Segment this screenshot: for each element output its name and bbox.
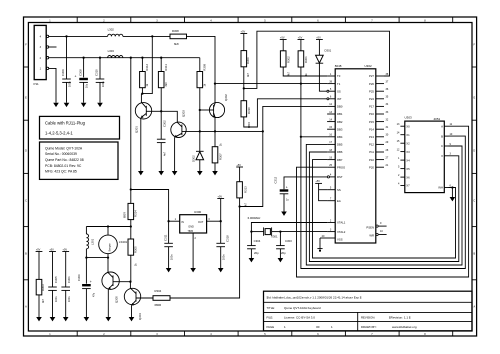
capacitor C302 [157, 111, 166, 171]
capacitor C306 polarized [77, 258, 96, 317]
wire R310 to INT row [244, 99, 327, 127]
ground C312 [281, 212, 287, 216]
wire beeper rail [86, 226, 130, 228]
svg-text:X0: X0 [406, 124, 410, 128]
svg-text:$Id: kbdbabel_doc_qvt102a-sch,: $Id: kbdbabel_doc_qvt102a-sch,v 1.1 2008… [267, 296, 362, 300]
ground C305 [50, 317, 56, 321]
border zone numbers bottom [49, 333, 426, 336]
svg-text:R306: R306 [246, 57, 250, 64]
svg-text:VSS: VSS [337, 237, 343, 241]
resistor R309 [197, 58, 206, 132]
svg-text:INH: INH [438, 186, 443, 190]
svg-text:C306: C306 [77, 274, 81, 281]
svg-text:R313: R313 [244, 186, 248, 193]
border zone numbers top [49, 20, 426, 23]
svg-text:R308: R308 [172, 29, 179, 33]
svg-text:U303: U303 [405, 116, 413, 120]
resistor R314 [124, 203, 138, 226]
wire +5V to output node [220, 199, 222, 244]
note box: cable pinout [40, 116, 120, 139]
svg-text:OUT: OUT [198, 221, 204, 224]
note box: keyboard data [40, 142, 119, 179]
svg-text:C309: C309 [61, 69, 65, 76]
svg-text:WR: WR [369, 234, 374, 238]
U302 right pin names [366, 74, 374, 238]
wire regulator OUT [207, 220, 221, 222]
regulator U300 7805 [175, 210, 211, 240]
node Q302 emitter junction [214, 130, 216, 132]
wire regulator GND pin [192, 233, 194, 268]
sheet inner border frame [28, 23, 472, 332]
svg-text:C301: C301 [67, 276, 71, 283]
wire bundle DB7 to 4051 X [313, 160, 456, 258]
svg-text:MFG: 423 QC: PA 85: MFG: 423 QC: PA 85 [45, 170, 77, 174]
svg-text:4n7: 4n7 [163, 151, 166, 156]
svg-text:+: + [90, 280, 92, 284]
node R301 bundle junction [300, 136, 302, 138]
wire VSS to ground [319, 238, 321, 249]
resistor R302 [280, 40, 290, 77]
svg-text:P13: P13 [369, 135, 374, 139]
svg-text:TITLE:: TITLE: [267, 306, 276, 310]
svg-text:20p: 20p [254, 251, 259, 255]
svg-text:FILE:: FILE: [267, 315, 274, 319]
wire Q301 collector [140, 94, 142, 103]
svg-text:P24: P24 [369, 97, 374, 101]
ground R307 [212, 171, 218, 175]
inductor L301 [86, 227, 94, 258]
wire pin3 stub [49, 46, 57, 48]
wire R304 to R313 node [170, 207, 240, 299]
svg-text:4k7: 4k7 [247, 72, 250, 77]
resistor R311 [158, 58, 167, 112]
title block frame [264, 291, 473, 331]
svg-text:X7: X7 [406, 184, 410, 188]
U303 right pin numbers [450, 123, 453, 187]
svg-text:D302: D302 [192, 155, 196, 162]
node R308 branch junction [151, 35, 153, 37]
wire collector branch Q301 [141, 36, 152, 93]
resistor R306 [241, 34, 250, 78]
capacitor C305 [48, 252, 58, 318]
svg-text:Q305: Q305 [115, 296, 119, 303]
svg-text:6k8: 6k8 [174, 42, 179, 46]
power +5V R301 [298, 36, 305, 39]
title block column divider [357, 312, 359, 330]
svg-text:P11: P11 [369, 150, 374, 154]
wire Q301 base to R311 column [146, 110, 161, 112]
node speaker collector junction [107, 256, 109, 258]
connector P11 [34, 25, 49, 86]
svg-text:R305: R305 [134, 246, 138, 253]
svg-text:Cable with RJ11-Plug: Cable with RJ11-Plug [45, 121, 86, 126]
capacitor C312 polarized [274, 176, 290, 211]
svg-text:R309: R309 [202, 63, 206, 70]
svg-text:Qume Part No.: 84822 08: Qume Part No.: 84822 08 [45, 158, 84, 162]
svg-text:T0: T0 [337, 74, 341, 78]
svg-text:P11: P11 [34, 82, 39, 86]
svg-text:www.kbdbabel.org: www.kbdbabel.org [392, 325, 417, 329]
svg-text:GND: GND [188, 226, 194, 229]
svg-text:DB7: DB7 [337, 158, 343, 162]
svg-text:8048: 8048 [335, 64, 342, 68]
resistor R312 [140, 58, 149, 94]
wire bundle DB5 to 4051 B [306, 144, 462, 265]
svg-text:Q304: Q304 [138, 313, 142, 320]
svg-text:+: + [286, 186, 288, 190]
ground INH [450, 197, 456, 201]
capacitor C309 [61, 36, 71, 102]
svg-text:T1: T1 [337, 82, 341, 86]
svg-text:C: C [441, 144, 443, 148]
svg-text:Q302: Q302 [224, 94, 228, 101]
U302 PSEN pin stub [376, 225, 387, 227]
node supply to regulator junction [130, 188, 132, 190]
transistor Q303 [171, 110, 186, 138]
svg-text:DB3: DB3 [337, 127, 343, 131]
node XTAL2 C303 junction [279, 230, 281, 232]
wire Q304 emitter to ground [131, 305, 133, 317]
svg-text:DRAWN BY:: DRAWN BY: [361, 325, 377, 329]
capacitor C310 [95, 58, 105, 103]
node pin2-R312 junction [141, 57, 143, 59]
svg-text:C304: C304 [254, 239, 261, 243]
svg-text:Beeper: Beeper [109, 243, 112, 251]
svg-text:Serial No.: 00060039: Serial No.: 00060039 [45, 152, 77, 156]
svg-text:U300: U300 [194, 210, 202, 214]
node C311 input junction [167, 220, 169, 222]
svg-text:C311: C311 [163, 234, 167, 241]
ground Q303 [172, 171, 178, 175]
svg-text:DB6: DB6 [337, 150, 343, 154]
node INH junction [451, 186, 453, 188]
capacitor C304 [247, 239, 261, 258]
svg-text:LS301: LS301 [119, 240, 128, 244]
U302 right pin numbers [380, 73, 389, 233]
svg-text:Qume Model: QVT-102A: Qume Model: QVT-102A [45, 146, 83, 150]
svg-text:EA: EA [337, 199, 341, 203]
svg-text:DB4: DB4 [337, 135, 343, 139]
svg-text:P14: P14 [369, 127, 374, 131]
inductor L302 [108, 28, 123, 37]
resistor R313 [237, 167, 248, 207]
svg-text:OF: OF [316, 325, 320, 329]
svg-text:X5: X5 [406, 167, 410, 171]
ground Q305 [106, 317, 112, 321]
ground C309 [64, 103, 70, 107]
svg-text:DB1: DB1 [337, 112, 343, 116]
svg-text:IN: IN [181, 221, 184, 224]
svg-text:X301: X301 [271, 234, 278, 238]
svg-text:7805: 7805 [188, 230, 194, 233]
svg-text:License: CC-BY-SA 3.0: License: CC-BY-SA 3.0 [284, 315, 315, 319]
svg-text:D301: D301 [325, 49, 332, 53]
svg-text:XTAL2: XTAL2 [337, 230, 346, 234]
node pin2-C308 junction [82, 57, 84, 59]
ground C311 [166, 268, 172, 272]
ground C306 [84, 317, 90, 321]
ground Q304 [129, 317, 135, 321]
wire pin4 net [49, 35, 108, 37]
node pin4-C309 junction [65, 35, 67, 37]
svg-text:C318: C318 [226, 235, 230, 242]
svg-text:PSEN: PSEN [366, 225, 374, 229]
capacitor C301 [61, 252, 71, 318]
U302 RESET pin bubble [327, 176, 329, 178]
svg-text:R310: R310 [247, 107, 251, 114]
svg-text:L303: L303 [108, 49, 115, 53]
svg-text:DB5: DB5 [337, 143, 343, 147]
node beeper rail junction [130, 225, 132, 227]
resistor R307 [212, 131, 222, 171]
node speaker top junction [107, 225, 109, 227]
svg-text:PAGE: PAGE [267, 325, 275, 329]
ground C302 [158, 171, 164, 175]
wire Q305 base to R305 column [113, 281, 130, 283]
svg-text:20p: 20p [281, 251, 286, 255]
svg-text:4k7: 4k7 [42, 298, 45, 303]
wire pin2 net [49, 57, 200, 59]
resistor R308 [170, 29, 187, 46]
ground C308 [81, 103, 87, 107]
U302 INT pin bubble [327, 98, 329, 100]
svg-text:X4: X4 [406, 158, 410, 162]
node R313 R304 junction [238, 205, 240, 207]
wire R302 to T0 pin [283, 67, 327, 76]
ground D302 [197, 171, 203, 175]
svg-text:A: A [441, 124, 443, 128]
ground C301 [63, 317, 69, 321]
svg-text:47u: 47u [92, 292, 95, 297]
border zone ticks bottom [77, 331, 453, 336]
svg-text:100n: 100n [171, 254, 174, 260]
svg-text:L301: L301 [90, 238, 94, 245]
svg-text:P27: P27 [369, 74, 374, 78]
capacitor C318 [216, 235, 229, 268]
transistor Q302 [209, 94, 228, 118]
ground pin1 [53, 103, 59, 107]
wire bundle DB4 to 4051 A [301, 136, 465, 268]
node D302 junction [199, 130, 201, 132]
svg-text:C308: C308 [78, 69, 82, 76]
svg-text:R304: R304 [155, 289, 162, 293]
wire Q305 emitter to ground [107, 289, 109, 317]
U302 left pin numbers [322, 73, 333, 238]
svg-text:680R: 680R [124, 212, 127, 218]
U303 left pin numbers [397, 123, 400, 185]
wire Q301 emitter to ground [140, 118, 142, 171]
node XTAL1 crystal junction [250, 230, 252, 232]
transistor Q301 [134, 102, 151, 133]
power +5V R306 [240, 30, 247, 33]
wire XTAL2 net [280, 231, 327, 233]
U303 right pin names [438, 124, 443, 189]
wire bundle DB6 to 4051 C [309, 152, 458, 262]
svg-text:B: B [441, 134, 443, 138]
svg-text:100n: 100n [69, 81, 72, 87]
svg-text:R302: R302 [287, 56, 291, 63]
wire R301 to T1 row and bundle column [300, 67, 302, 137]
svg-text:C305: C305 [54, 276, 58, 283]
svg-text:R301: R301 [304, 56, 308, 63]
capacitor C308 polarized [75, 58, 89, 103]
svg-text:4k7: 4k7 [288, 71, 291, 76]
ground C310 [97, 103, 103, 107]
svg-text:X: X [441, 154, 443, 158]
svg-text:SS: SS [337, 89, 341, 93]
svg-text:L302: L302 [108, 28, 115, 32]
svg-text:PCB: 84802-01 Rev: 9C: PCB: 84802-01 Rev: 9C [45, 164, 82, 168]
svg-text:Q303: Q303 [182, 110, 186, 117]
svg-text:P26: P26 [369, 82, 374, 86]
ground U300 [190, 268, 196, 272]
svg-text:R303: R303 [41, 284, 45, 291]
capacitor C303 [276, 232, 292, 258]
ground Q301 [138, 171, 144, 175]
crystal X301 [248, 216, 281, 238]
node pin2-supply junction [130, 57, 132, 59]
svg-text:P15: P15 [369, 120, 374, 124]
U302 left pin names [337, 74, 346, 241]
svg-text:+: + [75, 75, 77, 79]
ground C304 [249, 258, 255, 262]
wire INH to ground [449, 188, 453, 198]
svg-text:RST: RST [337, 175, 343, 179]
svg-text:$Revision: 1.1 $: $Revision: 1.1 $ [389, 315, 411, 319]
border zone ticks right [472, 67, 477, 280]
resistor R310 [241, 101, 251, 128]
node base junction R309 col [199, 109, 201, 111]
U302 WR pin stub [376, 233, 387, 235]
inductor L303 [108, 49, 123, 58]
border zone letters right [473, 44, 475, 309]
svg-text:C302: C302 [162, 120, 166, 127]
IC U303 4051 [405, 116, 445, 193]
svg-text:X6: X6 [406, 175, 410, 179]
border zone letters left [25, 44, 27, 309]
svg-text:10u: 10u [86, 83, 89, 88]
wire regulator IN [169, 220, 180, 222]
U303 left pin names [406, 124, 410, 187]
svg-text:X2: X2 [406, 141, 410, 145]
node C306 junction [85, 256, 87, 258]
wire bundle PROG to 4051 loop outer [297, 126, 469, 277]
svg-text:100n: 100n [68, 296, 71, 302]
wire Q302 base from R309 [200, 109, 214, 111]
title block row lines [264, 301, 473, 303]
U302 right pin stubs [376, 76, 384, 167]
IC U302 8048 [335, 64, 376, 243]
svg-text:X3: X3 [406, 150, 410, 154]
node R306 loop junction [243, 87, 245, 89]
ground C318 [218, 268, 224, 272]
wire base bus y131.4 [182, 130, 263, 132]
svg-text:100n: 100n [223, 254, 226, 260]
power +5V R302 [280, 36, 287, 39]
svg-text:D: D [473, 150, 475, 153]
resistor R301 [298, 40, 308, 77]
border zone ticks left [24, 67, 29, 280]
svg-text:680R: 680R [155, 303, 162, 307]
svg-text:C312: C312 [274, 176, 278, 183]
power +5V C305 [49, 248, 56, 251]
wire C312 to RESET pin [284, 177, 327, 189]
node T1 row junction [214, 82, 216, 84]
diode D301 [316, 40, 332, 64]
wire supply column from pin2 net [130, 58, 132, 204]
ground R303 [36, 317, 42, 321]
svg-text:REVISION:: REVISION: [361, 315, 375, 319]
svg-text:R311: R311 [164, 64, 168, 71]
U303 right pin stubs [444, 126, 448, 187]
svg-text:4051: 4051 [434, 117, 441, 121]
svg-text:DB2: DB2 [337, 120, 343, 124]
svg-text:R312: R312 [145, 63, 149, 70]
node pin2-C310 junction [99, 57, 101, 59]
wire L302 to R308 [123, 35, 170, 37]
svg-text:P10: P10 [369, 158, 374, 162]
svg-text:R314: R314 [134, 210, 138, 217]
svg-text:P20: P20 [369, 165, 374, 169]
power +5V D301 [316, 36, 323, 39]
resistor R305 [128, 227, 138, 289]
svg-text:INT: INT [337, 97, 342, 101]
transistor Q305 [102, 272, 119, 303]
svg-text:C: C [25, 200, 27, 203]
wire T1 row [215, 83, 327, 85]
wire Q303 emitter to ground [174, 137, 176, 171]
svg-text:6.000MHz: 6.000MHz [248, 216, 261, 220]
node R301 T1 junction [300, 82, 302, 84]
node base bus riser junction [262, 130, 264, 132]
svg-text:PROG: PROG [337, 165, 345, 169]
svg-text:C: C [473, 200, 475, 203]
svg-text:Qume QVT-102A Keyboard: Qume QVT-102A Keyboard [284, 306, 321, 310]
wire pin1 to ground [49, 68, 56, 102]
svg-text:P25: P25 [369, 89, 374, 93]
wire D301 to SS row [319, 63, 327, 91]
wire Q302 emitter [214, 117, 216, 131]
wire EA SS pullup [319, 183, 328, 200]
svg-text:1-4,2-5,3-2,4-1: 1-4,2-5,3-2,4-1 [45, 131, 73, 136]
U303 left pin stubs [400, 126, 404, 185]
capacitor C311 [163, 234, 173, 268]
diode D302 [192, 131, 204, 171]
wire SS branch [319, 189, 328, 191]
power +5V C301 [62, 248, 69, 251]
wire supply to regulator input [131, 190, 169, 244]
svg-text:100n: 100n [55, 296, 58, 302]
svg-text:P16: P16 [369, 112, 374, 116]
svg-text:XTAL1: XTAL1 [337, 221, 346, 225]
svg-text:3k3: 3k3 [165, 82, 168, 87]
wire R313 node to DB0 row [240, 106, 328, 206]
svg-text:C310: C310 [95, 69, 99, 76]
ground VSS [317, 248, 322, 250]
svg-text:P12: P12 [369, 143, 374, 147]
speaker LS301 [99, 227, 128, 273]
svg-text:C303: C303 [285, 239, 292, 243]
U302 SS pin bubble [327, 90, 329, 92]
power +5V EA [315, 180, 322, 183]
node C318 output junction [220, 220, 222, 222]
svg-text:100n: 100n [102, 81, 105, 87]
svg-text:Q301: Q301 [134, 126, 138, 133]
svg-text:SS: SS [337, 188, 341, 192]
border zone ticks top [77, 17, 453, 23]
svg-text:DB0: DB0 [337, 105, 343, 109]
svg-text:X1: X1 [406, 133, 410, 137]
